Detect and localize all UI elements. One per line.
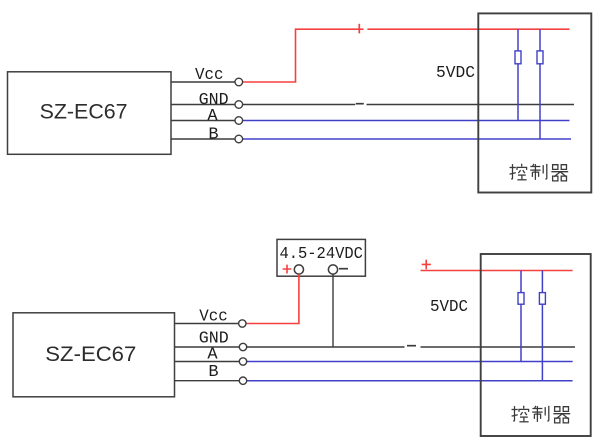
wire B (RS-485 B, blue, top) — [243, 138, 571, 140]
char 制 — [532, 406, 549, 422]
minus polarity mark on GND wire (top) — [356, 103, 364, 105]
wire A stub (top) — [171, 120, 235, 122]
controller box (top) — [478, 13, 591, 192]
wire B stub (bottom) — [175, 380, 240, 382]
CJK label 控制器 (top controller) — [510, 164, 569, 181]
pull-up resistor R3 lead (bottom, to A) — [520, 271, 522, 362]
module box U2 SZ-EC67 (bottom) — [13, 313, 175, 397]
plus mark of supply (red) — [283, 265, 292, 274]
char 控 — [510, 164, 527, 180]
wire B stub (top) — [171, 138, 235, 140]
char 器 — [551, 165, 568, 181]
wire A stub (bottom) — [175, 361, 240, 363]
resistor R2 body (top) — [537, 51, 543, 64]
wire +5V red rail (bottom) — [421, 270, 573, 272]
svg-text:SZ-EC67: SZ-EC67 — [40, 100, 128, 124]
plus polarity mark on +5V wire (top) — [358, 24, 360, 34]
wire Vcc stub (top) — [171, 81, 235, 83]
svg-text:A: A — [207, 346, 218, 365]
power supply box 4.5-24VDC — [277, 239, 365, 276]
pin Vcc terminal circle (bottom) — [239, 320, 246, 327]
wire GND stub (bottom) — [175, 346, 240, 348]
svg-text:5VDC: 5VDC — [430, 298, 468, 317]
svg-text:SZ-EC67: SZ-EC67 — [45, 342, 136, 366]
pull-up resistor R1 lead (top, to A) — [517, 29, 519, 120]
wire GND run (top) — [243, 104, 574, 106]
pin Vcc terminal circle (top) — [235, 78, 243, 86]
pin GND terminal circle (bottom) — [239, 343, 246, 350]
minus mark of supply — [339, 268, 348, 270]
wire A (blue, bottom) — [247, 361, 573, 363]
svg-text:5VDC: 5VDC — [436, 64, 475, 83]
pin GND terminal circle (top) — [235, 101, 243, 109]
minus polarity mark on GND wire (bottom) — [407, 345, 416, 347]
svg-text:B: B — [208, 363, 218, 382]
svg-text:B: B — [208, 125, 218, 144]
wire Vcc red +5V run (top) — [243, 29, 570, 82]
wire Vcc to supply + (red, bottom) — [246, 274, 299, 323]
supply + terminal circle — [294, 265, 303, 274]
CJK label 控制器 (bottom controller) — [512, 406, 571, 423]
char 制 — [530, 164, 547, 180]
controller box (bottom) — [481, 254, 591, 436]
wire B (blue, bottom) — [247, 380, 573, 382]
pull-up resistor R4 lead (bottom, to B) — [541, 271, 543, 381]
pin B terminal circle (bottom) — [239, 377, 246, 384]
pin A terminal circle (bottom) — [239, 358, 246, 365]
resistor R3 body (bottom) — [518, 293, 524, 305]
char 控 — [512, 406, 529, 422]
supply - terminal circle — [328, 265, 337, 274]
pin B terminal circle (top) — [235, 135, 243, 143]
wire GND stub (top) — [171, 104, 235, 106]
wire supply - to GND (black, bottom) — [332, 274, 334, 347]
resistor R4 body (bottom) — [539, 293, 545, 305]
char 器 — [553, 407, 570, 423]
svg-text:Vcc: Vcc — [195, 66, 224, 85]
wire GND run (bottom) — [247, 346, 575, 348]
wire Vcc stub (bottom) — [175, 323, 239, 325]
module box U1 SZ-EC67 (top) — [8, 72, 172, 155]
pull-up resistor R2 lead (top, to B) — [539, 29, 541, 139]
svg-text:A: A — [207, 107, 218, 126]
svg-text:4.5-24VDC: 4.5-24VDC — [279, 245, 363, 264]
svg-text:Vcc: Vcc — [199, 307, 228, 326]
resistor R1 body (top) — [515, 51, 521, 64]
wire A (RS-485 A, blue, top) — [243, 120, 570, 122]
plus polarity mark on +5V rail (bottom) — [422, 260, 431, 270]
pin A terminal circle (top) — [235, 117, 243, 125]
